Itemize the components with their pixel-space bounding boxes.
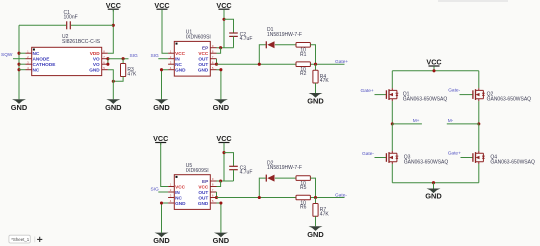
wire Gate+ to Q4 gate bbox=[461, 157, 473, 159]
wire mid rail to Q4 drain bbox=[478, 124, 480, 151]
top edge artifact bbox=[438, 0, 508, 2]
ground (left of U1) bbox=[153, 99, 170, 112]
svg-text:EP: EP bbox=[202, 46, 208, 51]
svg-text:GND: GND bbox=[153, 236, 170, 245]
ground (H-bridge) bbox=[425, 189, 442, 201]
resistor R4 47K bbox=[313, 70, 329, 84]
wire C3 bottom lead bbox=[233, 170, 235, 181]
wire Gate- to Q3 gate bbox=[375, 157, 387, 159]
svg-text:IXDI609SI: IXDI609SI bbox=[186, 168, 209, 174]
capacitor C2 4.7uF bbox=[229, 32, 252, 42]
wire to U2 NC pin bbox=[19, 69, 26, 71]
transistor Q2 GAN063-650WSAQ bbox=[473, 88, 531, 102]
wire C3 top loop bbox=[224, 153, 234, 167]
wire EP rail bbox=[217, 47, 234, 49]
svg-text:IN: IN bbox=[175, 57, 180, 62]
junction M+ node bbox=[391, 122, 394, 125]
junction network left bbox=[258, 63, 261, 66]
wire C1 right segment bbox=[71, 24, 113, 26]
IC U2 SI8261BCC-C-IS isolated gate driver bbox=[26, 34, 108, 75]
junction U5 GND right corner bbox=[219, 201, 222, 204]
ground (left of U2) bbox=[11, 99, 28, 112]
ground (right of U1) bbox=[213, 99, 230, 112]
junction C3 tap bbox=[222, 151, 225, 154]
wire R4 top lead bbox=[315, 64, 317, 70]
junction NC tap bbox=[17, 68, 20, 71]
wire R1 to network right vertical bbox=[310, 45, 315, 64]
svg-text:VCC: VCC bbox=[106, 1, 121, 10]
svg-text:OUT: OUT bbox=[198, 190, 208, 195]
wire VO to SIG label bbox=[108, 58, 129, 60]
svg-text:R6: R6 bbox=[300, 205, 307, 211]
svg-text:GND: GND bbox=[425, 192, 442, 201]
power flag VCC (H-bridge) bbox=[426, 57, 441, 68]
diode D1 1N5819HW-7-F bbox=[266, 41, 274, 48]
svg-text:GND: GND bbox=[198, 68, 209, 73]
wire VCC to U1 VCC pin bbox=[162, 10, 168, 53]
capacitor C3 4.7uF bbox=[229, 166, 252, 176]
svg-text:VCC: VCC bbox=[216, 134, 231, 143]
wire VCC down to EP rail bbox=[223, 10, 225, 48]
svg-text:NC: NC bbox=[175, 195, 182, 200]
junction R3 tap bbox=[122, 57, 125, 60]
ground (below R4) bbox=[307, 93, 324, 106]
wire EP to VCC pin tie (U5) bbox=[217, 181, 221, 187]
wire U1 GND right down bbox=[217, 70, 221, 100]
junction CATHODE tap bbox=[17, 63, 20, 66]
wire Q1 source to mid rail bbox=[391, 101, 393, 124]
wire Gate- to Q2 gate bbox=[460, 94, 473, 96]
wire network left vertical / to D2 cathode bbox=[259, 178, 266, 197]
svg-text:VCC: VCC bbox=[426, 57, 441, 66]
wire M- stub bbox=[447, 123, 479, 125]
wire top rail to Q2 drain bbox=[478, 71, 480, 88]
wire bottom rail bbox=[392, 182, 479, 184]
svg-text:R2: R2 bbox=[300, 71, 307, 77]
transistor Q4 GAN063-650WSAQ bbox=[473, 151, 535, 165]
svg-text:VCC: VCC bbox=[175, 51, 186, 56]
svg-text:100nF: 100nF bbox=[64, 15, 78, 21]
svg-text:4.7uF: 4.7uF bbox=[240, 169, 253, 175]
svg-text:VCC: VCC bbox=[198, 51, 209, 56]
wire Q4 source to bottom rail bbox=[478, 164, 480, 183]
wire R5 to network right vertical bbox=[310, 178, 315, 197]
IC U1 IXDN609SI gate driver bbox=[168, 30, 216, 77]
wire C2 top loop bbox=[224, 19, 234, 33]
wire U5 GND left down bbox=[162, 203, 169, 233]
svg-text:SIG: SIG bbox=[130, 53, 139, 59]
svg-text:OUT: OUT bbox=[198, 62, 208, 67]
wire R7 top lead bbox=[315, 198, 317, 204]
svg-text:VCC: VCC bbox=[175, 184, 186, 189]
wire D2 to R5 bbox=[275, 177, 296, 179]
svg-text:GND: GND bbox=[213, 103, 230, 112]
svg-text:R5: R5 bbox=[300, 185, 307, 191]
junction VO2 bbox=[106, 63, 109, 66]
svg-text:1N5819HW-7-F: 1N5819HW-7-F bbox=[267, 32, 302, 38]
junction NC1 tap bbox=[17, 52, 20, 55]
wire R3 bottom lead bbox=[113, 77, 123, 82]
junction network left (bottom) bbox=[258, 196, 261, 199]
svg-text:47K: 47K bbox=[320, 78, 330, 84]
wire SQW to U2 ANODE bbox=[13, 58, 26, 60]
junction U1 GND corner bbox=[160, 68, 163, 71]
power flag VCC (above U2) bbox=[106, 1, 121, 12]
junction VO1 bbox=[106, 57, 109, 60]
svg-text:IXDN609SI: IXDN609SI bbox=[186, 35, 211, 41]
power flag VCC (above C2) bbox=[216, 1, 231, 12]
svg-text:M+: M+ bbox=[413, 118, 420, 124]
wire VCC down to EP rail (U5) bbox=[223, 143, 225, 181]
svg-text:VDD: VDD bbox=[90, 51, 101, 56]
svg-text:4.7uF: 4.7uF bbox=[240, 36, 253, 42]
svg-text:VO: VO bbox=[93, 57, 100, 62]
svg-text:GND: GND bbox=[153, 103, 170, 112]
wire VCC to U2 VDD pin bbox=[108, 10, 113, 53]
svg-text:SIG: SIG bbox=[151, 53, 160, 59]
svg-text:NC: NC bbox=[33, 68, 40, 73]
wire OUT main to Gate- bbox=[217, 197, 345, 199]
wire VCC stub to top rail bbox=[433, 67, 435, 71]
svg-text:*Sheet_1: *Sheet_1 bbox=[11, 237, 30, 242]
ground (right of U2) bbox=[105, 99, 122, 112]
wire C2 bottom lead bbox=[233, 36, 235, 47]
svg-text:SQW: SQW bbox=[1, 52, 13, 58]
power flag VCC (left of U1) bbox=[154, 1, 169, 12]
ground (left of U5) bbox=[153, 233, 170, 246]
diode D2 1N5819HW-7-F bbox=[266, 175, 274, 182]
wire SIG to U5 IN bbox=[158, 191, 168, 193]
resistor R3 47K bbox=[121, 64, 137, 78]
svg-text:GND: GND bbox=[198, 201, 209, 206]
wire mid rail to Q3 drain bbox=[391, 124, 393, 151]
svg-text:ANODE: ANODE bbox=[33, 57, 50, 62]
sheet tab bar bbox=[9, 235, 42, 243]
wire U1 GND left down bbox=[162, 70, 169, 100]
svg-text:GAN063-650WSAQ: GAN063-650WSAQ bbox=[487, 96, 532, 102]
resistor R1 10 bbox=[296, 43, 310, 58]
wire to U2 NC pin 1 bbox=[19, 52, 26, 54]
svg-text:GND: GND bbox=[307, 230, 324, 239]
wire D1 to R1 bbox=[275, 44, 296, 46]
junction OUT tie (U5) bbox=[215, 196, 218, 199]
wire Q2 source to mid rail bbox=[478, 101, 480, 124]
wire network left vertical / to D1 cathode bbox=[259, 45, 266, 64]
svg-text:GAN063-650WSAQ: GAN063-650WSAQ bbox=[404, 159, 449, 165]
junction VCC/top rail bbox=[432, 69, 435, 72]
wire R3 top lead bbox=[122, 59, 124, 64]
wire U5 GND right down bbox=[217, 203, 221, 233]
svg-text:GND: GND bbox=[175, 68, 186, 73]
wire M+ stub bbox=[392, 123, 422, 125]
svg-text:OUT: OUT bbox=[198, 195, 208, 200]
svg-text:1N5819HW-7-F: 1N5819HW-7-F bbox=[267, 165, 302, 171]
svg-text:GND: GND bbox=[213, 236, 230, 245]
wire R4 bottom lead bbox=[315, 83, 317, 93]
wire SIG to U1 IN bbox=[158, 58, 168, 60]
resistor R5 10 bbox=[296, 176, 310, 191]
svg-text:47K: 47K bbox=[127, 72, 137, 78]
wire U2 GND pin down bbox=[108, 70, 113, 100]
svg-text:Gate-: Gate- bbox=[335, 192, 347, 198]
svg-text:NC: NC bbox=[33, 51, 40, 56]
svg-text:VCC: VCC bbox=[153, 134, 168, 143]
wire top rail bbox=[392, 70, 479, 72]
IC U5 IXDI609SI inverting gate driver bbox=[168, 163, 216, 210]
junction EP/VCC tie bbox=[219, 46, 222, 49]
svg-text:GAN063-650WSAQ: GAN063-650WSAQ bbox=[490, 159, 535, 165]
wire VO pins tie bbox=[107, 59, 109, 64]
ground (right of U5) bbox=[213, 233, 230, 246]
junction U5 GND corner bbox=[160, 201, 163, 204]
svg-text:SIG: SIG bbox=[151, 186, 160, 192]
junction M- node bbox=[477, 122, 480, 125]
transistor Q1 GAN063-650WSAQ bbox=[386, 88, 447, 102]
svg-text:VO: VO bbox=[93, 62, 100, 67]
ground (below R7) bbox=[307, 226, 324, 239]
junction GND/bottom rail bbox=[432, 181, 435, 184]
wire top rail to Q1 drain bbox=[391, 71, 393, 88]
wire OUT pins tie (U5) bbox=[216, 192, 218, 198]
svg-text:R1: R1 bbox=[300, 52, 307, 58]
svg-text:SI8261BCC-C-IS: SI8261BCC-C-IS bbox=[62, 39, 101, 45]
capacitor C1 100nF bbox=[64, 10, 78, 30]
svg-text:GND: GND bbox=[89, 68, 100, 73]
power flag VCC (left of U5) bbox=[153, 134, 168, 145]
wire R7 bottom lead bbox=[315, 216, 317, 226]
svg-text:VCC: VCC bbox=[198, 184, 209, 189]
svg-text:OUT: OUT bbox=[198, 57, 208, 62]
resistor R2 10 bbox=[296, 62, 310, 77]
svg-text:IN: IN bbox=[175, 190, 180, 195]
svg-text:GAN063-650WSAQ: GAN063-650WSAQ bbox=[403, 96, 448, 102]
wire OUT pins tie bbox=[216, 59, 218, 64]
wire EP to VCC pin tie bbox=[217, 48, 221, 54]
wire OUT main to Gate+ bbox=[217, 63, 345, 65]
wire left vertical to GND bbox=[18, 25, 20, 99]
svg-text:Gate+: Gate+ bbox=[335, 59, 348, 65]
svg-text:VCC: VCC bbox=[154, 1, 169, 10]
junction Gate+/R4 bbox=[314, 63, 317, 66]
junction R3/GND rail bbox=[112, 80, 115, 83]
wire Gate+ to Q1 gate bbox=[375, 94, 387, 96]
svg-text:NC: NC bbox=[175, 62, 182, 67]
svg-text:CATHODE: CATHODE bbox=[33, 62, 56, 67]
resistor R6 10 bbox=[296, 195, 310, 210]
junction EP/VCC tie (U5) bbox=[219, 179, 222, 182]
junction Gate-/R7 bbox=[314, 196, 317, 199]
wire EP rail (U5) bbox=[217, 180, 234, 182]
svg-text:GND: GND bbox=[105, 103, 122, 112]
svg-text:VCC: VCC bbox=[216, 1, 231, 10]
junction OUT tie bbox=[215, 63, 218, 66]
junction C2 tap bbox=[222, 18, 225, 21]
wire Q3 source to bottom rail bbox=[391, 164, 393, 183]
svg-text:47K: 47K bbox=[320, 211, 330, 217]
power flag VCC (above C3) bbox=[216, 134, 231, 145]
wire C1 left segment bbox=[19, 24, 66, 26]
wire VCC to U5 VCC pin bbox=[161, 143, 168, 186]
transistor Q3 GAN063-650WSAQ bbox=[386, 151, 448, 165]
svg-text:Gate+: Gate+ bbox=[448, 150, 461, 156]
svg-text:M-: M- bbox=[448, 118, 454, 124]
resistor R7 47K bbox=[313, 204, 329, 218]
svg-text:Gate-: Gate- bbox=[362, 151, 374, 157]
wire to U2 CATHODE pin bbox=[19, 63, 26, 65]
svg-text:GND: GND bbox=[307, 97, 324, 106]
svg-text:GND: GND bbox=[175, 201, 186, 206]
svg-text:GND: GND bbox=[11, 103, 28, 112]
svg-text:Gate-: Gate- bbox=[448, 88, 460, 94]
junction C1/VDD rail bbox=[112, 24, 115, 27]
junction U1 GND right corner bbox=[219, 68, 222, 71]
wire GND stub bbox=[433, 183, 435, 189]
svg-text:EP: EP bbox=[202, 179, 208, 184]
svg-text:Gate+: Gate+ bbox=[361, 88, 374, 94]
